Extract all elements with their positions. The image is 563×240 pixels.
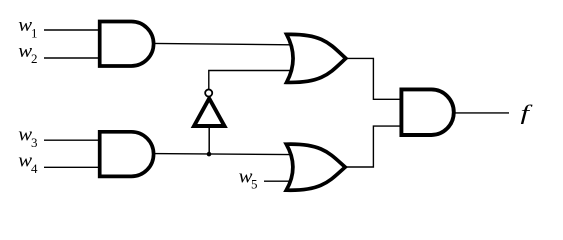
svg-text:4: 4 — [31, 161, 38, 176]
wire w4 to AND2 — [44, 166, 100, 168]
svg-text:5: 5 — [251, 177, 258, 192]
wire w1 to AND1 — [44, 29, 100, 31]
wire w2 to AND1 — [44, 57, 100, 59]
AND gate U1 (inputs w1,w2) — [100, 22, 154, 67]
wire w3 to AND2 — [44, 139, 100, 141]
wire OR2 output to AND3 bottom input — [344, 126, 402, 167]
wire w5 to OR2 — [264, 180, 293, 182]
AND gate U5 (output f) — [401, 89, 453, 135]
NOT gate triangle — [194, 98, 225, 126]
wire NOT output to OR1 lower input — [209, 71, 293, 91]
OR gate U3 (top) — [287, 34, 346, 82]
svg-text:2: 2 — [31, 51, 38, 66]
wire AND1 output to OR1 input — [153, 43, 293, 44]
wire NOT input from junction — [208, 126, 210, 154]
NOT gate bubble — [205, 89, 212, 96]
wire OR1 output to AND3 top input — [344, 58, 402, 99]
wire AND2 output to OR2 input — [153, 154, 293, 155]
svg-text:3: 3 — [31, 135, 38, 150]
svg-text:1: 1 — [31, 25, 38, 40]
wire AND3 output to f — [454, 112, 509, 114]
OR gate U4 (bottom) — [286, 144, 345, 190]
junction node dot — [207, 152, 212, 157]
AND gate U2 (inputs w3,w4) — [100, 132, 154, 177]
